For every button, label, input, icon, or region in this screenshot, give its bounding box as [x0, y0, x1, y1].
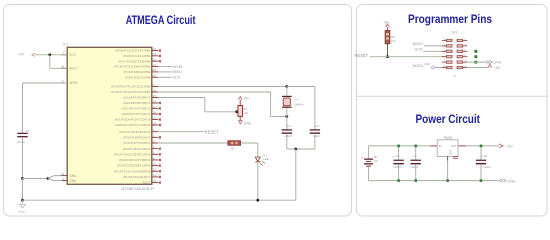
- svg-text:22pF: 22pF: [285, 134, 292, 138]
- svg-text:24: 24: [153, 99, 157, 103]
- svg-text:(ADC5/SCL/PCINT13)PC5: (ADC5/SCL/PCINT13)PC5: [115, 123, 151, 127]
- svg-text:9V: 9V: [374, 159, 378, 163]
- svg-text:(PCINT2/SS/OC1B)PB2: (PCINT2/SS/OC1B)PB2: [118, 59, 151, 63]
- svg-text:ADC7: ADC7: [142, 181, 150, 185]
- svg-text:(PCINT19/OC2B/INT1)PD3: (PCINT19/OC2B/INT1)PD3: [114, 152, 151, 156]
- svg-text:100nF: 100nF: [410, 165, 419, 169]
- svg-text:Y1: Y1: [295, 97, 299, 101]
- svg-text:10k: 10k: [391, 39, 396, 43]
- svg-text:+5V: +5V: [243, 97, 250, 101]
- svg-text:16MHz: 16MHz: [294, 102, 304, 106]
- svg-text:C7: C7: [413, 154, 417, 158]
- svg-text:+: +: [393, 154, 395, 158]
- svg-text:+: +: [362, 156, 364, 160]
- svg-text:(PCINT5/SCK)PB5: (PCINT5/SCK)PB5: [125, 75, 151, 79]
- svg-text:RESET: RESET: [355, 53, 369, 58]
- svg-text:IN: IN: [439, 144, 442, 148]
- svg-text:R1: R1: [231, 147, 235, 151]
- svg-text:19: 19: [153, 74, 157, 78]
- svg-text:+: +: [480, 154, 482, 158]
- svg-text:C8: C8: [483, 154, 487, 158]
- svg-text:ATMEGA328-P: ATMEGA328-P: [121, 187, 155, 191]
- svg-text:(PCINT3/OC2A/MOSI)PB3: (PCINT3/OC2A/MOSI)PB3: [115, 65, 151, 69]
- svg-text:MOSI: MOSI: [172, 64, 182, 69]
- svg-text:+5V: +5V: [383, 21, 390, 25]
- svg-text:ATMEGA Circuit: ATMEGA Circuit: [126, 13, 196, 27]
- svg-text:(ADC3/PCINT11)PC3: (ADC3/PCINT11)PC3: [122, 112, 151, 116]
- svg-text:100uF: 100uF: [393, 165, 402, 169]
- svg-text:GND: GND: [494, 61, 502, 65]
- svg-text:SV1: SV1: [451, 31, 457, 35]
- svg-text:IC1: IC1: [63, 42, 68, 46]
- svg-text:(PCINT4/MISO)PB4: (PCINT4/MISO)PB4: [124, 70, 151, 74]
- svg-text:AVCC: AVCC: [69, 66, 78, 70]
- svg-text:MOSI: MOSI: [413, 63, 423, 68]
- svg-text:(ADC4/SDA/PCINT12)PC4: (ADC4/SDA/PCINT12)PC4: [114, 118, 150, 122]
- svg-text:(ADC0/PCINT8)PC0: (ADC0/PCINT8)PC0: [123, 96, 151, 100]
- svg-text:MISO: MISO: [172, 69, 182, 74]
- svg-text:15: 15: [153, 52, 157, 56]
- svg-text:27: 27: [153, 116, 157, 120]
- svg-text:12: 12: [153, 168, 157, 172]
- svg-text:(PCINT0/CLKO/ICP1)PB0: (PCINT0/CLKO/ICP1)PB0: [116, 49, 151, 53]
- svg-text:MISO: MISO: [413, 41, 423, 46]
- svg-text:(PCINT16/RXD)PD0: (PCINT16/RXD)PD0: [123, 135, 151, 139]
- svg-text:GND: GND: [18, 210, 26, 214]
- svg-text:(PCINT18/INT0)PD2: (PCINT18/INT0)PD2: [123, 147, 151, 151]
- svg-text:18: 18: [153, 68, 157, 72]
- svg-text:+5V: +5V: [18, 53, 25, 57]
- svg-text:(PCINT7/XTAL2/TOSC2)PB7: (PCINT7/XTAL2/TOSC2)PB7: [111, 90, 150, 94]
- svg-text:C3: C3: [315, 124, 319, 128]
- svg-text:(PCINT20/XCK/T0)PD4: (PCINT20/XCK/T0)PD4: [119, 158, 151, 162]
- svg-text:+5V: +5V: [494, 66, 501, 70]
- svg-text:(PCINT14/RESET)PC6: (PCINT14/RESET)PC6: [119, 130, 150, 134]
- svg-text:100nF: 100nF: [17, 140, 26, 144]
- svg-text:C1: C1: [26, 129, 30, 133]
- svg-text:(PCINT6/XTAL1/TOSC1)PB6: (PCINT6/XTAL1/TOSC1)PB6: [111, 85, 150, 89]
- svg-text:(ADC2/PCINT10)PC2: (ADC2/PCINT10)PC2: [121, 107, 150, 111]
- svg-text:J1: J1: [453, 73, 457, 77]
- svg-text:GND: GND: [69, 174, 77, 178]
- svg-text:GND: GND: [448, 150, 452, 156]
- svg-text:13: 13: [153, 173, 157, 177]
- svg-text:14: 14: [153, 47, 157, 51]
- svg-text:Power Circuit: Power Circuit: [416, 112, 481, 126]
- svg-text:C2: C2: [287, 124, 291, 128]
- svg-text:LED: LED: [263, 157, 270, 161]
- svg-text:GND: GND: [244, 121, 252, 125]
- svg-text:GND: GND: [69, 179, 77, 183]
- svg-text:C6: C6: [396, 154, 400, 158]
- svg-text:SCK: SCK: [172, 75, 181, 80]
- svg-text:17: 17: [153, 63, 157, 67]
- svg-text:+5V: +5V: [506, 145, 513, 149]
- svg-text:19: 19: [153, 179, 157, 183]
- svg-text:100uF: 100uF: [482, 165, 491, 169]
- svg-text:11: 11: [153, 162, 156, 166]
- svg-text:(PCINT21/OC0B/T1)PD5: (PCINT21/OC0B/T1)PD5: [117, 164, 151, 168]
- svg-text:SCK: SCK: [415, 46, 424, 51]
- svg-text:(ADC1/PCINT9)PC1: (ADC1/PCINT9)PC1: [123, 101, 151, 105]
- svg-text:26: 26: [153, 110, 157, 114]
- svg-text:RESET: RESET: [205, 129, 219, 134]
- svg-text:25: 25: [153, 105, 157, 109]
- svg-text:(PCINT17/TXD)PD1: (PCINT17/TXD)PD1: [123, 141, 150, 145]
- svg-text:22: 22: [61, 172, 65, 176]
- svg-text:GND: GND: [507, 179, 516, 183]
- svg-text:OUT: OUT: [451, 144, 457, 148]
- svg-text:GND: GND: [424, 62, 430, 66]
- svg-text:(PCINT23/AIN1)PD7: (PCINT23/AIN1)PD7: [123, 175, 151, 179]
- svg-text:23: 23: [153, 94, 157, 98]
- svg-text:28: 28: [153, 121, 157, 125]
- svg-text:7805: 7805: [443, 136, 453, 140]
- svg-text:(PCINT1/OC1A)PB1: (PCINT1/OC1A)PB1: [123, 54, 151, 58]
- svg-text:(PCINT22/OC0A/AIN0)PD6: (PCINT22/OC0A/AIN0)PD6: [114, 169, 151, 173]
- svg-text:10: 10: [153, 88, 157, 92]
- svg-text:10k: 10k: [243, 111, 248, 115]
- svg-text:16: 16: [153, 58, 157, 62]
- svg-text:Programmer Pins: Programmer Pins: [408, 12, 492, 26]
- svg-text:AREF: AREF: [69, 81, 78, 85]
- svg-text:VCC: VCC: [69, 53, 76, 57]
- svg-text:22pF: 22pF: [313, 134, 320, 138]
